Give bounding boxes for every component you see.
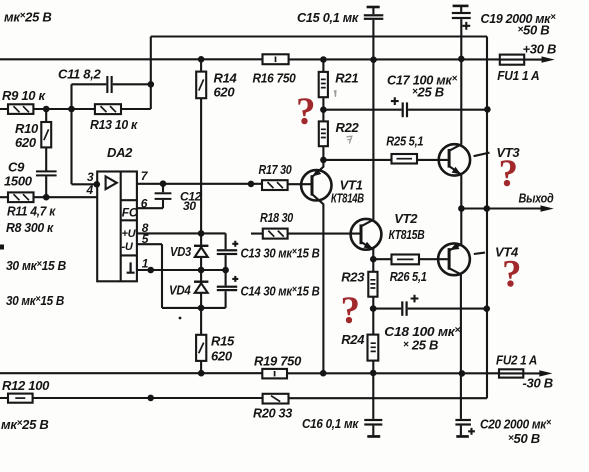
svg-text:6: 6 — [141, 197, 148, 211]
svg-text:R16 750: R16 750 — [253, 70, 297, 85]
svg-text:R15: R15 — [211, 334, 235, 349]
svg-text:КТ815В: КТ815В — [389, 227, 425, 242]
svg-text:+U: +U — [122, 228, 137, 240]
svg-text:мк×25 В: мк×25 В — [4, 10, 51, 25]
svg-text:?: ? — [341, 289, 360, 332]
svg-text:R11 4,7 к: R11 4,7 к — [7, 203, 57, 218]
svg-text:5: 5 — [142, 232, 149, 246]
svg-text:30 мк×15 В: 30 мк×15 В — [6, 258, 66, 273]
svg-text:Выход: Выход — [519, 190, 554, 205]
svg-text:R14: R14 — [214, 70, 238, 85]
svg-text:FC: FC — [122, 206, 138, 220]
svg-text:×25 В: ×25 В — [412, 85, 444, 100]
svg-text:VD3: VD3 — [170, 244, 192, 259]
svg-text:FU1 1 A: FU1 1 A — [497, 68, 539, 83]
svg-text:C9: C9 — [8, 159, 25, 174]
svg-text:?: ? — [296, 90, 315, 133]
svg-text:-U: -U — [122, 241, 134, 253]
svg-text:мк×25 В: мк×25 В — [1, 417, 48, 432]
svg-text:VT2: VT2 — [394, 211, 418, 226]
svg-text:R17 30: R17 30 — [259, 162, 293, 177]
svg-text:R10: R10 — [15, 121, 39, 136]
svg-text:×50 В: ×50 В — [518, 22, 550, 37]
svg-text:R12 100: R12 100 — [2, 378, 50, 393]
svg-text:R20 33: R20 33 — [253, 406, 293, 421]
svg-text:C15 0,1 мк: C15 0,1 мк — [297, 10, 360, 25]
svg-text:+30 В: +30 В — [523, 41, 557, 56]
svg-text:4: 4 — [86, 183, 94, 197]
svg-text:-30 В: -30 В — [523, 376, 553, 391]
svg-text:R21: R21 — [335, 71, 358, 86]
svg-text:620: 620 — [214, 85, 236, 100]
svg-text:R13 10 к: R13 10 к — [90, 117, 139, 132]
svg-text:C20 2000 мк×: C20 2000 мк× — [480, 417, 551, 432]
svg-text:R22: R22 — [336, 120, 360, 135]
svg-text:C11 8,2: C11 8,2 — [58, 67, 102, 82]
svg-text:R19 750: R19 750 — [254, 353, 302, 368]
svg-text:VD4: VD4 — [169, 282, 191, 297]
svg-text:C13 30 мк×15 В: C13 30 мк×15 В — [241, 246, 320, 261]
svg-text:30: 30 — [183, 199, 196, 213]
svg-text:1: 1 — [142, 257, 149, 271]
svg-text:R24: R24 — [341, 332, 365, 347]
svg-text:R8 300 к: R8 300 к — [6, 220, 55, 235]
svg-text:620: 620 — [15, 135, 37, 150]
svg-text:1500: 1500 — [4, 173, 33, 188]
svg-text:× 25 В: × 25 В — [403, 338, 438, 353]
svg-text:R9 10 к: R9 10 к — [2, 88, 47, 103]
svg-text:C14 30 мк×15 В: C14 30 мк×15 В — [241, 283, 320, 298]
svg-text:620: 620 — [211, 349, 233, 364]
svg-text:FU2 1 A: FU2 1 A — [496, 353, 537, 368]
svg-text:R18 30: R18 30 — [260, 210, 294, 225]
svg-text:R26 5,1: R26 5,1 — [390, 269, 427, 284]
svg-text:×50 В: ×50 В — [508, 431, 540, 446]
svg-text:R25 5,1: R25 5,1 — [386, 134, 423, 149]
svg-text:3: 3 — [87, 170, 94, 184]
svg-text:?: ? — [502, 253, 521, 296]
svg-text:?: ? — [499, 152, 518, 195]
svg-text:DA2: DA2 — [107, 145, 133, 160]
svg-text:30 мк×15 В: 30 мк×15 В — [6, 293, 64, 308]
svg-text:КТ814В: КТ814В — [331, 190, 364, 205]
svg-text:C16 0,1 мк: C16 0,1 мк — [302, 416, 360, 431]
svg-text:R23: R23 — [341, 270, 365, 285]
